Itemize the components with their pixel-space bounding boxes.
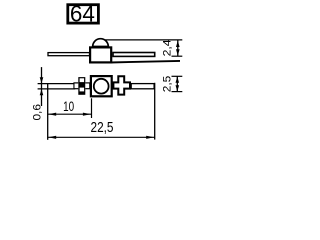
svg-text:0,6: 0,6: [32, 104, 44, 121]
svg-text:2,4: 2,4: [161, 39, 173, 56]
svg-text:64: 64: [70, 1, 95, 27]
svg-text:22,5: 22,5: [91, 120, 114, 136]
svg-text:10: 10: [63, 98, 74, 114]
svg-text:2,5: 2,5: [161, 76, 173, 93]
